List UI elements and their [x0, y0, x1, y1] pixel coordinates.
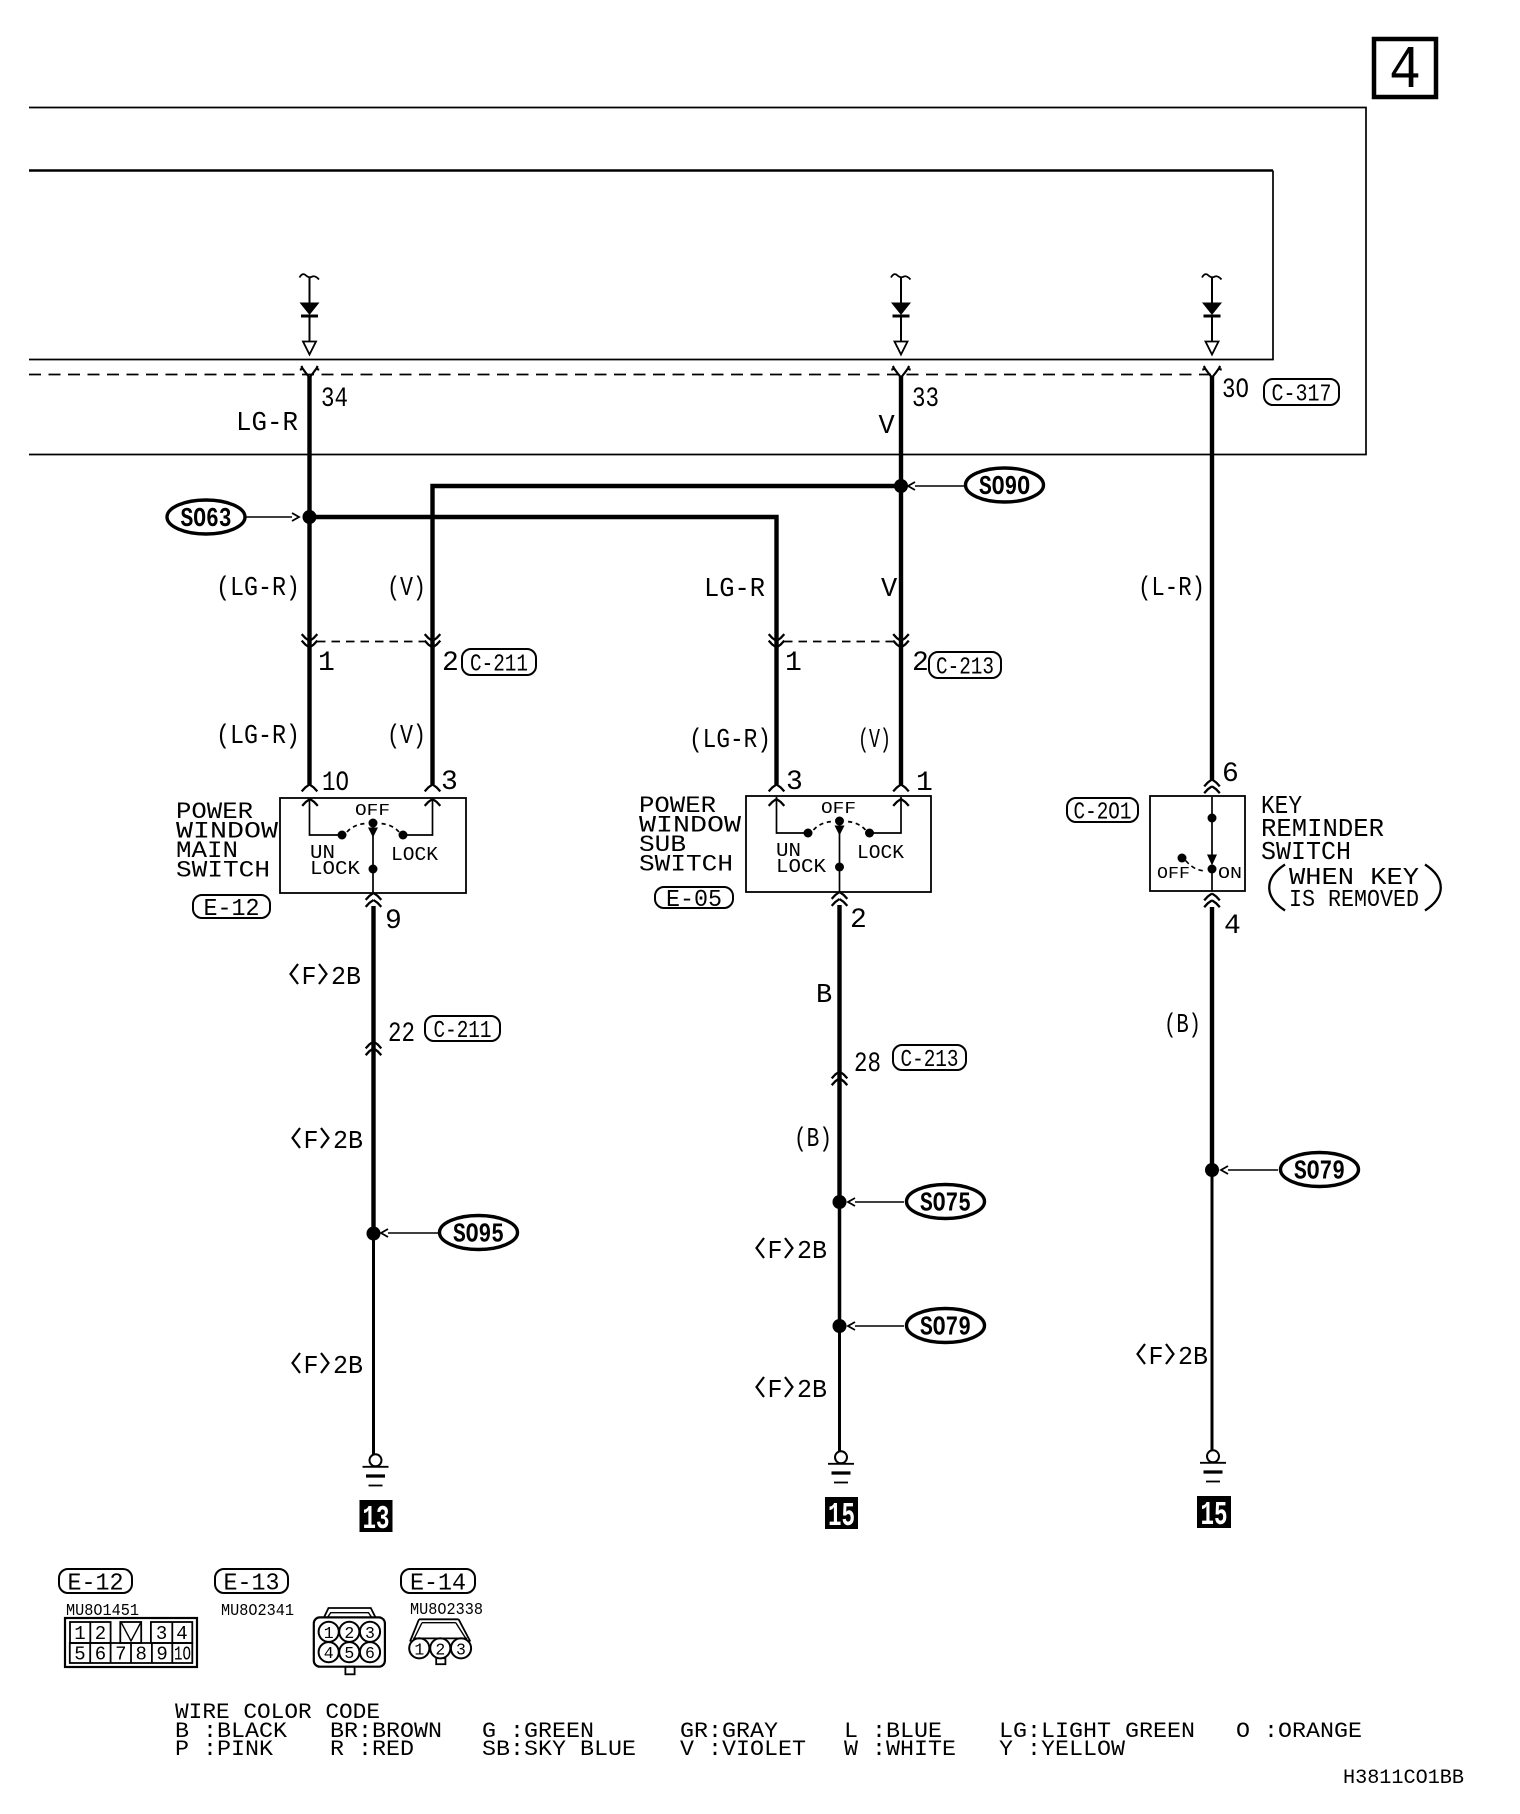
svg-text:(LG-R): (LG-R) — [689, 726, 771, 756]
connector C-317 pin 34 terminal fork — [300, 366, 319, 378]
sub switch connector label E-05 — [655, 887, 733, 908]
key switch note (WHEN KEY IS REMOVED) — [1269, 865, 1441, 915]
svg-text:C-213: C-213 — [936, 655, 994, 682]
svg-text:E-05: E-05 — [666, 887, 722, 914]
svg-text:IS REMOVED: IS REMOVED — [1289, 887, 1419, 914]
svg-text:V :VIOLET: V :VIOLET — [680, 1737, 806, 1762]
svg-text:1: 1 — [324, 1624, 334, 1643]
svg-text:9: 9 — [156, 1644, 167, 1666]
sub switch name label — [639, 793, 741, 878]
svg-text:C-317: C-317 — [1272, 382, 1332, 409]
svg-text:LOCK: LOCK — [310, 858, 361, 880]
key switch pin 4 exit forks — [1204, 894, 1220, 908]
svg-text:2B: 2B — [797, 1375, 827, 1405]
diode D2 (pin 33 feed) — [891, 274, 911, 354]
svg-text:F: F — [304, 1126, 319, 1156]
svg-text:3: 3 — [456, 1640, 466, 1659]
svg-text:E-12: E-12 — [204, 896, 260, 923]
ground G15 (key) — [1200, 1450, 1226, 1481]
svg-text:SWITCH: SWITCH — [1261, 837, 1351, 867]
C-211 mating dashed line — [317, 641, 425, 643]
power window sub switch E-05 box — [746, 796, 931, 892]
svg-text:15: 15 — [1201, 1497, 1228, 1534]
svg-text:1: 1 — [318, 648, 335, 679]
wire S095 to ground G13 — [372, 1233, 375, 1454]
svg-text:2B: 2B — [1178, 1342, 1208, 1372]
connector label C-213 (lower) — [893, 1045, 966, 1070]
svg-text:SO95: SO95 — [453, 1221, 504, 1251]
svg-text:Y :YELLOW: Y :YELLOW — [999, 1737, 1126, 1762]
main switch pin 9 exit forks — [366, 893, 382, 907]
svg-text:(B): (B) — [794, 1125, 832, 1155]
page number 4 marker — [1374, 38, 1436, 106]
svg-text:(L-R): (L-R) — [1138, 574, 1205, 604]
connector C-317 pin 30 terminal fork — [1202, 366, 1221, 378]
connector C-213 pin 1 forks — [769, 634, 785, 647]
wire S079 to ground G15 (key) — [1211, 1170, 1214, 1450]
svg-text:9: 9 — [385, 906, 402, 937]
svg-text:1O: 1O — [174, 1644, 191, 1666]
svg-text:2: 2 — [344, 1624, 354, 1643]
wire LG-R from splice S063 to power window sub switch pin 3 — [310, 517, 777, 785]
main switch name label — [176, 799, 278, 884]
svg-text:4: 4 — [176, 1623, 187, 1645]
ground reference 13 — [360, 1500, 393, 1538]
connector label E-13 (detail) — [215, 1569, 288, 1593]
connector C-211 pin 1 forks — [302, 634, 318, 647]
connector C-213 pin 28 forks — [832, 1072, 848, 1086]
splice S095 — [367, 1216, 518, 1251]
sub switch UN LOCK label — [776, 840, 827, 878]
wire colour code table — [175, 1700, 1362, 1762]
wire V from splice S090 to main switch pin 3 — [433, 486, 902, 785]
splice S079 (key leg) — [1205, 1153, 1359, 1188]
svg-text:SWITCH: SWITCH — [176, 858, 270, 884]
wire label <F>2B (sub 2nd) — [757, 1375, 828, 1405]
svg-text:(B): (B) — [1164, 1011, 1201, 1041]
svg-text:15: 15 — [828, 1498, 855, 1535]
svg-text:2B: 2B — [797, 1236, 827, 1266]
svg-text:2B: 2B — [331, 962, 361, 992]
sub switch pin 2 exit forks — [832, 892, 848, 906]
svg-text:SB:SKY BLUE: SB:SKY BLUE — [482, 1737, 636, 1762]
svg-text:ON: ON — [1218, 865, 1242, 884]
svg-text:SWITCH: SWITCH — [639, 852, 733, 878]
svg-text:(V): (V) — [858, 726, 891, 756]
svg-text:13: 13 — [363, 1501, 390, 1538]
svg-text:C-211: C-211 — [434, 1018, 492, 1045]
svg-text:28: 28 — [854, 1049, 881, 1080]
key switch internal contacts — [1178, 797, 1218, 891]
svg-text:P :PINK: P :PINK — [175, 1737, 274, 1762]
connector C-211 pin 22 forks — [366, 1042, 382, 1056]
svg-text:1: 1 — [785, 648, 802, 679]
svg-text:(V): (V) — [387, 574, 426, 604]
svg-text:F: F — [768, 1236, 783, 1266]
svg-text:1: 1 — [916, 768, 933, 799]
sub switch pin 1 entry forks — [893, 785, 909, 806]
svg-text:2B: 2B — [333, 1351, 363, 1381]
sub switch pin 3 entry forks — [769, 785, 785, 806]
connector E-12 pin face drawing — [65, 1618, 197, 1667]
svg-text:OFF: OFF — [1157, 865, 1190, 884]
main switch internal contacts — [310, 799, 433, 893]
svg-text:F: F — [1149, 1342, 1164, 1372]
svg-text:F: F — [304, 1351, 319, 1381]
svg-text:22: 22 — [388, 1019, 415, 1050]
svg-text:3: 3 — [156, 1623, 167, 1645]
svg-text:B: B — [816, 981, 832, 1011]
svg-text:SO79: SO79 — [1294, 1158, 1345, 1188]
svg-text:8: 8 — [135, 1644, 146, 1666]
svg-text:2: 2 — [95, 1623, 106, 1645]
svg-text:6: 6 — [365, 1644, 375, 1663]
svg-text:(LG-R): (LG-R) — [216, 574, 300, 604]
svg-text:4: 4 — [1389, 38, 1421, 106]
svg-text:LG-R: LG-R — [704, 575, 765, 605]
svg-text:2: 2 — [435, 1640, 445, 1659]
svg-text:F: F — [768, 1375, 783, 1405]
connector label E-12 (detail) — [59, 1569, 132, 1593]
svg-text:5: 5 — [74, 1644, 85, 1666]
connector E-13 pin face drawing — [314, 1608, 385, 1674]
sub switch internal contacts — [777, 797, 902, 892]
svg-text:1O: 1O — [322, 768, 349, 799]
wire label <F>2B (2nd) — [293, 1126, 364, 1156]
wire LG-R pin 34 to power window main switch pin 10 — [307, 376, 311, 785]
svg-text:C-2O1: C-2O1 — [1074, 800, 1132, 827]
svg-text:(LG-R): (LG-R) — [216, 722, 300, 752]
svg-text:V: V — [879, 412, 896, 442]
diode D1 (pin 34 feed) — [300, 274, 320, 354]
svg-text:3O: 3O — [1222, 375, 1249, 406]
connector label C-317 — [1264, 379, 1339, 405]
svg-text:C-213: C-213 — [901, 1047, 959, 1074]
connector label C-211 (lower) — [425, 1016, 500, 1041]
junction block inner outline — [29, 171, 1273, 360]
diode D3 (pin 30 feed) — [1202, 274, 1222, 354]
svg-text:LOCK: LOCK — [391, 844, 439, 866]
svg-text:LOCK: LOCK — [776, 856, 827, 878]
ground reference 15 (sub) — [825, 1497, 858, 1535]
svg-text:(V): (V) — [387, 722, 426, 752]
svg-text:3: 3 — [365, 1624, 375, 1643]
svg-text:SO79: SO79 — [920, 1314, 971, 1344]
svg-text:LG-R: LG-R — [236, 409, 298, 439]
svg-text:O :ORANGE: O :ORANGE — [1236, 1719, 1362, 1744]
connector label C-211 — [462, 649, 536, 675]
wire L-R pin 30 to key reminder switch pin 6 — [1210, 376, 1214, 780]
ground G13 — [363, 1454, 389, 1485]
wire label <F>2B (key leg) — [1138, 1342, 1209, 1372]
junction block C-317 outer outline — [29, 108, 1366, 455]
wire label <F>2B (3rd) — [293, 1351, 364, 1381]
svg-text:MU8O2338: MU8O2338 — [410, 1600, 483, 1619]
connector label E-14 (detail) — [401, 1569, 475, 1593]
svg-text:E-13: E-13 — [224, 1571, 280, 1598]
svg-text:2: 2 — [912, 648, 929, 679]
svg-text:3: 3 — [786, 767, 803, 798]
connector C-317 mating dashed line — [29, 374, 1213, 376]
svg-text:34: 34 — [321, 384, 348, 415]
main switch pin 10 entry forks — [302, 785, 318, 806]
svg-text:2B: 2B — [333, 1126, 363, 1156]
splice S090 — [894, 468, 1044, 503]
svg-text:2: 2 — [442, 648, 459, 679]
wire sub switch pin 2 to ground — [837, 905, 841, 1202]
wire S075 to S079 — [838, 1202, 842, 1326]
key switch pin 6 entry forks — [1204, 780, 1220, 794]
splice S075 — [833, 1185, 985, 1220]
svg-text:V: V — [881, 575, 898, 605]
ground G15 (sub) — [828, 1451, 854, 1482]
wire main switch pin 9 to ground — [371, 906, 375, 1234]
ground reference 15 (key) — [1197, 1496, 1231, 1534]
svg-text:1: 1 — [74, 1623, 85, 1645]
svg-text:LOCK: LOCK — [857, 842, 905, 864]
svg-text:4: 4 — [1224, 911, 1241, 942]
svg-text:SO63: SO63 — [181, 505, 232, 535]
svg-text:3: 3 — [441, 767, 458, 798]
wire label <F>2B (sub) — [757, 1236, 828, 1266]
svg-text:H3811CO1BB: H3811CO1BB — [1343, 1767, 1464, 1790]
svg-text:SO9O: SO9O — [979, 473, 1030, 503]
svg-text:W :WHITE: W :WHITE — [844, 1737, 956, 1762]
wire V pin 33 to power window sub switch pin 1 — [899, 376, 903, 785]
svg-text:OFF: OFF — [821, 800, 856, 819]
svg-text:5: 5 — [344, 1644, 354, 1663]
svg-text:4: 4 — [324, 1644, 334, 1663]
connector C-317 pin 33 terminal fork — [891, 366, 910, 378]
main switch connector label E-12 — [193, 895, 270, 918]
svg-text:E-14: E-14 — [410, 1571, 466, 1598]
svg-text:MU8O2341: MU8O2341 — [221, 1601, 294, 1620]
splice S079 (sub leg) — [833, 1309, 985, 1344]
power window main switch E-12 box — [280, 798, 466, 893]
svg-text:SO75: SO75 — [920, 1190, 971, 1220]
main switch pin 3 entry forks — [425, 785, 441, 806]
key switch name label — [1261, 791, 1384, 867]
connector label C-213 — [929, 652, 1001, 678]
splice S063 — [167, 500, 317, 535]
svg-text:1: 1 — [414, 1640, 424, 1659]
svg-text:2: 2 — [850, 905, 867, 936]
svg-text:OFF: OFF — [355, 802, 390, 821]
connector E-14 pin face drawing — [409, 1619, 471, 1664]
key reminder switch C-201 box — [1150, 796, 1245, 891]
wire key switch pin 4 to ground — [1210, 907, 1214, 1170]
wire S079 to ground G15 — [838, 1326, 841, 1451]
svg-text:33: 33 — [912, 384, 939, 415]
svg-text:7: 7 — [115, 1644, 126, 1666]
connector C-211 pin 2 forks — [425, 634, 441, 647]
svg-text:F: F — [302, 962, 317, 992]
svg-text:E-12: E-12 — [68, 1571, 124, 1598]
key switch connector label C-201 — [1067, 798, 1138, 822]
connector C-213 pin 2 forks — [893, 634, 909, 647]
svg-text:R :RED: R :RED — [330, 1737, 414, 1762]
svg-text:6: 6 — [1222, 759, 1239, 790]
svg-text:C-211: C-211 — [470, 652, 528, 679]
main switch UN LOCK label — [310, 842, 361, 880]
C-213 mating dashed line — [784, 641, 894, 643]
wire label <F>2B — [291, 962, 362, 992]
svg-text:6: 6 — [95, 1644, 106, 1666]
